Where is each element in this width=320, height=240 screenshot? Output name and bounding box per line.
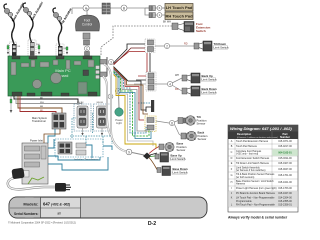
wall plug left xyxy=(11,168,29,180)
wire: teal dashed outlet runs xyxy=(70,112,112,144)
connector: base up plug xyxy=(155,154,159,159)
svg-text:Switch: Switch xyxy=(196,29,206,33)
outlet box 1 xyxy=(74,102,91,136)
svg-text:© Midmark Corporation 2004 SF-: © Midmark Corporation 2004 SF-1922 • (Re… xyxy=(8,222,76,225)
board component: relay xyxy=(78,82,87,94)
wire: foot switch leads xyxy=(178,24,184,31)
node on conduit upper xyxy=(108,94,113,99)
wire: transformer secondary blue xyxy=(48,129,55,143)
board component: chip xyxy=(74,61,81,65)
wire: base sensor leads xyxy=(149,147,159,154)
back position sensor xyxy=(187,131,197,141)
svg-text:Serial Numbers:: Serial Numbers: xyxy=(14,212,38,216)
board component: large capacitor xyxy=(51,73,62,84)
wire: node to sensors xyxy=(175,121,182,136)
svg-text:015-1761-00: 015-1761-00 xyxy=(278,174,292,177)
board component: right edge pads xyxy=(96,66,100,79)
svg-text:Control: Control xyxy=(82,23,93,27)
node G xyxy=(169,120,174,125)
svg-text:Light: Light xyxy=(116,121,122,125)
wire fan: dark red to tilt stack xyxy=(114,48,146,65)
svg-text:Touch Pad Extension Harness: Touch Pad Extension Harness xyxy=(236,140,269,143)
connector: base actuator plug xyxy=(10,42,17,56)
base down limit switch xyxy=(162,166,171,176)
ground wire green/yellow xyxy=(28,177,44,184)
models value cell xyxy=(41,197,81,217)
appliance plug right xyxy=(55,183,71,192)
wire: blue mains runs xyxy=(48,139,112,170)
wire: tilt down row xyxy=(155,45,196,47)
svg-text:Tilt Down Limit Switch Harness: Tilt Down Limit Switch Harness xyxy=(236,162,270,165)
connector: junction bar xyxy=(138,100,154,112)
tilt position sensor xyxy=(184,116,196,126)
conduit: base harness tube xyxy=(103,76,111,135)
wire: touch pad split xyxy=(145,8,165,15)
wire fan: teal2 L-loop xyxy=(114,73,152,139)
svg-text:Models:: Models: xyxy=(23,202,38,207)
node H power light feed xyxy=(115,88,120,93)
board component: chip right xyxy=(83,70,89,76)
connector: tilt sensor plug xyxy=(178,118,183,124)
label: Tilt Position Sensor xyxy=(197,115,207,125)
main system transformer xyxy=(52,113,66,129)
board component: chip xyxy=(88,60,94,67)
wire: brown lead 1 xyxy=(18,96,62,113)
svg-text:Foot Extension Switch Harness: Foot Extension Switch Harness xyxy=(236,157,270,160)
connector: base down plug xyxy=(157,168,161,173)
main PC board xyxy=(8,56,100,96)
svg-text:Transformer: Transformer xyxy=(32,119,46,123)
svg-text:Always verify model & serial n: Always verify model & serial number xyxy=(228,216,288,220)
board component: chip xyxy=(31,60,35,67)
svg-text:3: 3 xyxy=(110,60,112,64)
connector: tilt down plug xyxy=(194,43,199,49)
wire fan: black up to tilt stack xyxy=(114,44,146,63)
wire: back down leads xyxy=(187,88,191,94)
wiring parts table xyxy=(228,125,298,212)
models strip xyxy=(9,197,207,218)
label: Foot Extension Switch xyxy=(196,22,211,33)
table grid and rows xyxy=(228,132,298,208)
connector: sensor harness stack xyxy=(145,116,156,132)
svg-text:Limit Switch: Limit Switch xyxy=(202,78,217,82)
svg-text:Limit Switch: Limit Switch xyxy=(202,91,217,95)
label: Back Down Limit Switch xyxy=(201,87,217,95)
node A xyxy=(83,5,89,11)
svg-text:Limit Switch: Limit Switch xyxy=(171,157,186,161)
svg-text:004-1103-01: 004-1103-01 xyxy=(278,152,292,155)
svg-text:BR: BR xyxy=(40,106,43,108)
node 1 xyxy=(157,13,162,18)
svg-text:015-1027-00: 015-1027-00 xyxy=(278,192,292,195)
conduit: foot control tube xyxy=(104,64,126,152)
wire fan: black L-loop xyxy=(114,67,147,111)
svg-text:Power Light Harness (incl. gre: Power Light Harness (incl. green light) xyxy=(236,187,277,190)
svg-text:WH BK: WH BK xyxy=(77,102,84,104)
connector: board right edge lower xyxy=(100,72,107,77)
connector: RH pad plug xyxy=(149,13,155,18)
label: Tilt Down Limit Switch xyxy=(213,42,229,50)
svg-text:Number: Number xyxy=(280,135,290,139)
connector: back sensor plug xyxy=(181,133,186,139)
svg-text:Isolation Transformer: Isolation Transformer xyxy=(74,158,98,162)
svg-text:H: H xyxy=(231,181,233,184)
connector: board right edge upper xyxy=(100,60,107,65)
label: Base Position Sensor xyxy=(177,142,187,152)
label: Power Light xyxy=(115,118,122,125)
harness trunk bar xyxy=(106,57,108,76)
svg-text:015-0217-00: 015-0217-00 xyxy=(278,145,292,148)
svg-text:RD: RD xyxy=(40,110,44,112)
svg-text:Sensor: Sensor xyxy=(177,148,186,152)
board component: edge connector J3 xyxy=(41,92,52,96)
green highlighted part cell xyxy=(272,149,298,155)
power cord xyxy=(8,178,55,189)
wire: back switch row xyxy=(154,78,182,91)
power inlet box xyxy=(22,143,48,184)
label: Base Up Limit Switch xyxy=(170,154,186,162)
wire fan: red up to tilt stack xyxy=(114,52,146,65)
connector: tilt actuator plug xyxy=(56,44,64,56)
board component: chip xyxy=(66,60,70,69)
wire: tilt-back stack link black xyxy=(149,53,151,72)
connector: foot control board plug xyxy=(85,52,90,56)
connector: foot switch plug xyxy=(172,23,178,30)
svg-text:Sensor: Sensor xyxy=(198,137,207,141)
svg-text:BK WH: BK WH xyxy=(163,21,171,24)
base position sensor xyxy=(165,142,174,151)
svg-text:Description: Description xyxy=(237,132,252,136)
svg-text:RH Touch Pad – Non-Programmabl: RH Touch Pad – Non-Programmable xyxy=(236,203,276,206)
connector: back harness stack xyxy=(146,72,156,91)
svg-text:LH Touch Pad: LH Touch Pad xyxy=(166,5,193,10)
svg-text:RD: RD xyxy=(175,88,179,91)
svg-text:Sensor: Sensor xyxy=(197,122,206,126)
ground: base actuator xyxy=(7,44,9,55)
svg-text:015-0311-00: 015-0311-00 xyxy=(278,157,292,160)
ground: board lead xyxy=(10,96,13,113)
svg-text:4: 4 xyxy=(169,82,171,86)
connector: back actuator plug xyxy=(28,40,36,56)
node E xyxy=(164,43,169,48)
svg-text:015-0047-00: 015-0047-00 xyxy=(278,168,292,171)
board component: edge connector J5 xyxy=(88,92,97,96)
wire fan: gray L-loop xyxy=(114,71,148,132)
wire fan: teal dashed L-loop xyxy=(114,70,147,134)
wire fan: red L-loop xyxy=(114,69,145,121)
svg-text:015-0107-00: 015-0107-00 xyxy=(278,162,292,165)
svg-text:Wiring Diagram: 647 (-001 / -0: Wiring Diagram: 647 (-001 / -002) xyxy=(230,126,292,131)
wire foot control to board xyxy=(86,51,88,56)
svg-text:RH Touch Pad: RH Touch Pad xyxy=(165,14,193,19)
svg-text:(w/ harness if box switches): (w/ harness if box switches) xyxy=(236,169,266,172)
wire fan: yellow L-loop xyxy=(114,75,157,149)
back up limit switch xyxy=(191,73,200,83)
board component: top edge connector J6 xyxy=(12,56,20,59)
isolation transformer box xyxy=(55,139,103,157)
wire fan: brown L-loop xyxy=(114,68,149,115)
foot control pendant xyxy=(75,8,99,31)
svg-text:Touch Pad Harness: Touch Pad Harness xyxy=(236,145,258,148)
svg-text:G: G xyxy=(231,174,233,177)
base up limit switch xyxy=(160,153,169,163)
label: Base Down Limit Switch xyxy=(172,167,188,175)
svg-text:PC Board & Junction Board Harn: PC Board & Junction Board Harness xyxy=(236,192,276,195)
outlet box 2 xyxy=(94,102,111,136)
connector: LH pad plug xyxy=(149,6,155,11)
connector: back down plug xyxy=(182,88,187,94)
node below foot control xyxy=(84,46,89,51)
label: Back Position Sensor xyxy=(198,131,208,141)
wire fan: stubs to back switch stack xyxy=(138,75,146,77)
node B xyxy=(121,5,127,11)
ground: tilt actuator xyxy=(66,46,68,55)
board component: chip xyxy=(40,62,49,67)
svg-text:015-2358-01: 015-2358-01 xyxy=(278,203,292,206)
svg-text:2: 2 xyxy=(166,44,168,48)
node D harness fan origin xyxy=(108,59,113,64)
board component: capacitor 2 xyxy=(33,80,42,89)
connector: back up plug xyxy=(182,75,187,81)
power light xyxy=(115,94,123,117)
ground: back actuator xyxy=(38,44,40,55)
wire: top harness run xyxy=(72,8,152,14)
back actuator cable xyxy=(23,3,33,44)
foot extension switch xyxy=(184,22,194,33)
board component: chip row xyxy=(21,63,29,67)
board component: IC chip xyxy=(11,62,16,75)
svg-text:015-0371-00: 015-0371-00 xyxy=(278,140,292,143)
svg-text:WH BK: WH BK xyxy=(97,102,104,104)
back down limit switch xyxy=(191,86,200,96)
connector: base sensor plug xyxy=(159,144,164,150)
label: Main System Transformer xyxy=(32,116,47,123)
svg-text:9: 9 xyxy=(128,150,130,154)
svg-text:C: C xyxy=(231,151,233,154)
svg-text:Power Inlet: Power Inlet xyxy=(30,139,43,143)
tilt down limit switch xyxy=(203,41,212,51)
label: Back Up Limit Switch xyxy=(201,74,217,82)
wire: board to transformer black xyxy=(14,96,78,105)
wire: tilt-back stack link red xyxy=(146,53,148,72)
wire: foot switch dashed run xyxy=(101,26,172,56)
svg-text:all: all xyxy=(57,212,60,216)
board component: top edge connector J8 xyxy=(56,56,64,59)
node F xyxy=(167,81,172,86)
svg-text:WH: WH xyxy=(40,102,44,104)
wire to LH pad xyxy=(162,7,165,9)
board component: edge connector J1 xyxy=(12,92,22,96)
board component: edge connector J2 xyxy=(27,93,35,96)
wire: back up leads xyxy=(187,75,191,81)
svg-text:D-2: D-2 xyxy=(148,221,156,226)
tilt actuator cable xyxy=(53,8,62,48)
svg-text:Harness: Harness xyxy=(236,183,246,186)
wire: brown lead 2 xyxy=(20,96,56,114)
RH Touch Pad xyxy=(165,12,193,20)
board component: top edge connector J7 xyxy=(29,56,37,59)
svg-text:WH: WH xyxy=(175,74,179,77)
svg-text:D: D xyxy=(231,157,233,160)
foot control cable stem xyxy=(83,33,90,45)
table title bar xyxy=(228,125,298,132)
wire fan: white L-loop xyxy=(114,74,154,147)
svg-text:015-1021-00: 015-1021-00 xyxy=(278,181,292,184)
harness junction diamond xyxy=(143,153,151,160)
wire fan: green dashed L-loop xyxy=(114,72,150,137)
svg-text:(w/ both sensors): (w/ both sensors) xyxy=(236,176,255,179)
LH Touch Pad xyxy=(165,4,193,12)
svg-text:(-001 only - foot end): (-001 only - foot end) xyxy=(236,153,258,156)
wire: transformer brown xyxy=(44,129,60,143)
board component: top edge connector J9 xyxy=(83,56,92,59)
board component: edge connector J4 xyxy=(61,93,69,96)
connector: tilt harness stack xyxy=(145,39,155,53)
svg-text:647 (-001 & -002): 647 (-001 & -002) xyxy=(43,202,70,207)
table column header row xyxy=(228,132,298,140)
svg-text:Limit Switch: Limit Switch xyxy=(173,171,188,175)
connector: inline harness plug pair xyxy=(102,3,110,14)
wire: tilt down leads xyxy=(199,43,203,49)
wire conduit to diamond xyxy=(132,153,144,156)
board component: chip xyxy=(53,60,58,65)
shaded programmable rows xyxy=(228,191,298,207)
svg-text:8: 8 xyxy=(171,121,173,125)
svg-text:015-1763-00: 015-1763-00 xyxy=(278,187,292,190)
wire: tilt sensor row xyxy=(156,121,169,123)
base actuator cable xyxy=(4,4,14,44)
node on conduit xyxy=(126,149,132,155)
svg-text:RD: RD xyxy=(184,43,188,46)
wire: white lead xyxy=(16,96,82,105)
svg-text:Limit Switch: Limit Switch xyxy=(214,46,229,50)
node 6 xyxy=(157,6,162,11)
